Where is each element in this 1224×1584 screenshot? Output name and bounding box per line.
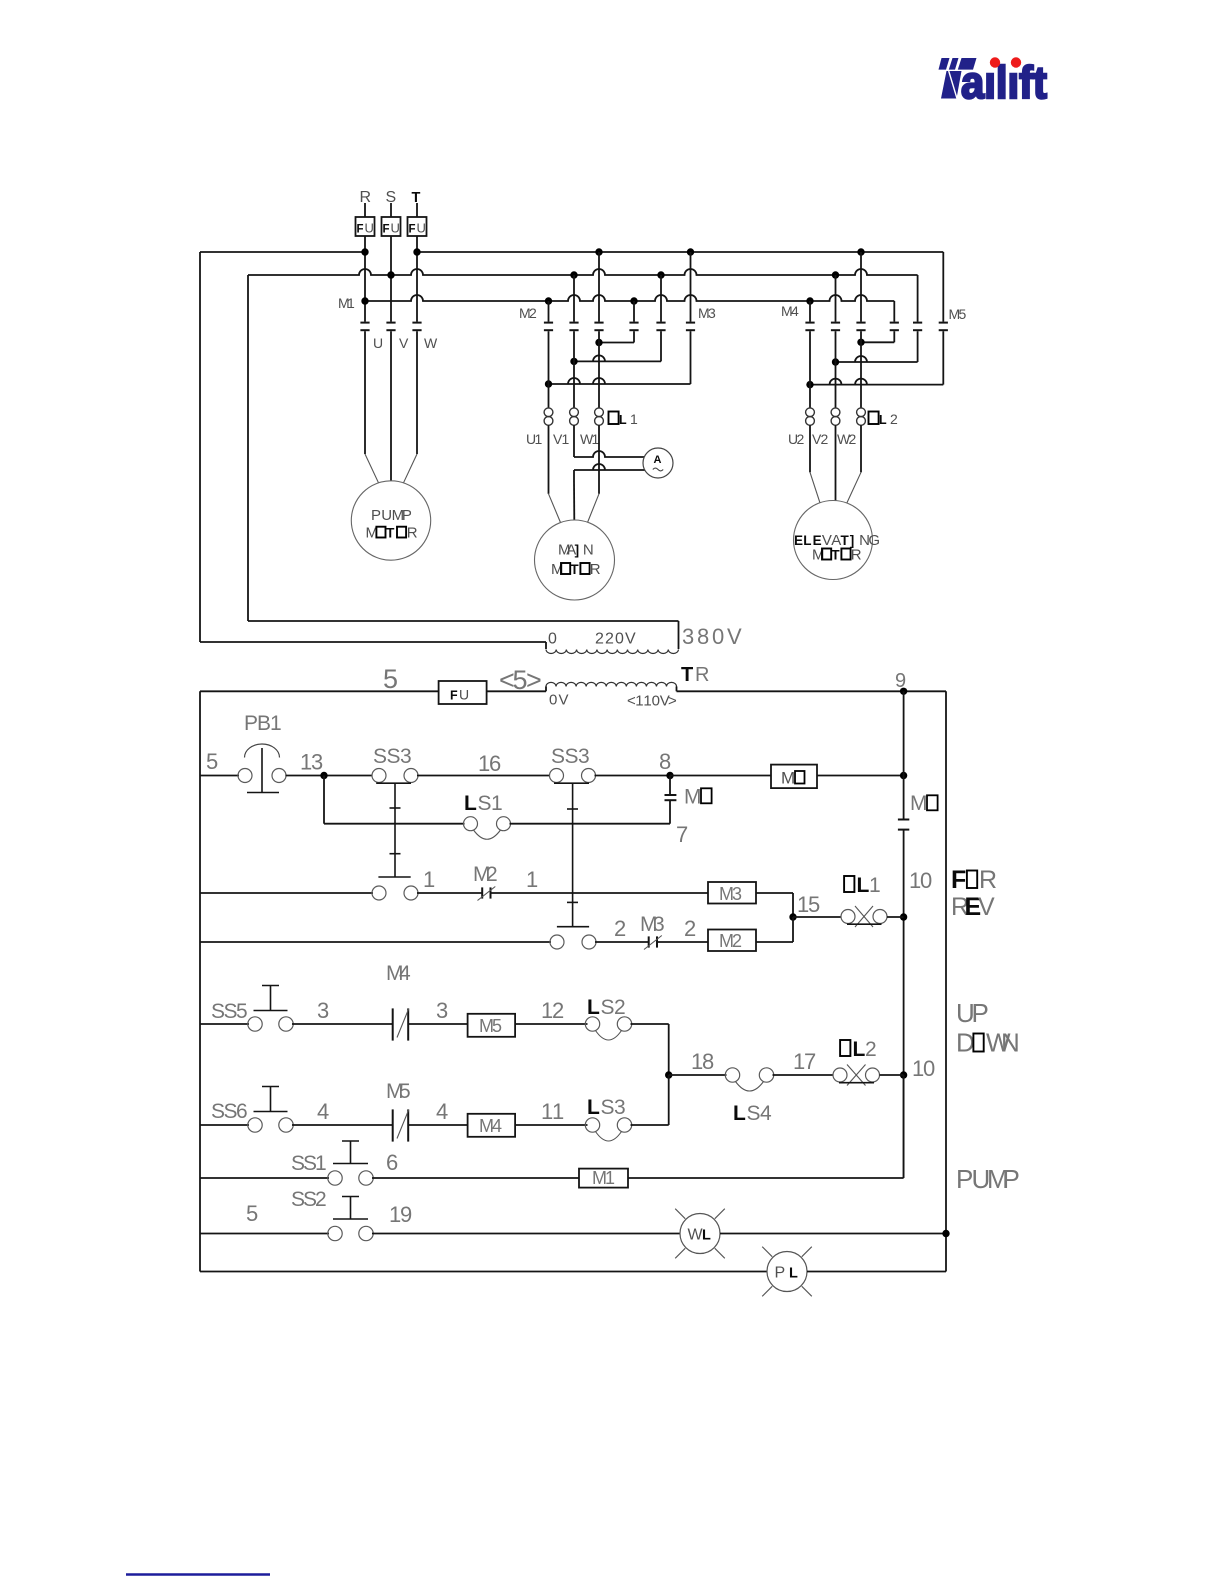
svg-text:1: 1 xyxy=(270,712,282,735)
wire U2 feed xyxy=(809,331,811,408)
wire row2 b xyxy=(417,892,482,894)
svg-text:1: 1 xyxy=(526,867,538,892)
wire PL row a xyxy=(200,1271,767,1273)
label UP xyxy=(956,998,989,1028)
svg-text:0: 0 xyxy=(712,624,724,649)
svg-text:L: L xyxy=(702,1228,711,1244)
svg-text:F: F xyxy=(450,689,458,703)
wire W1 lead xyxy=(588,425,600,522)
pushbutton SS6 xyxy=(211,1087,293,1133)
footer line xyxy=(126,1573,270,1575)
wire SS1 b xyxy=(372,1177,579,1179)
svg-text:6: 6 xyxy=(489,751,501,776)
svg-text:W: W xyxy=(424,335,438,351)
svg-text:T: T xyxy=(681,664,693,686)
limit switch LS1 xyxy=(464,792,511,839)
wire V2 lead xyxy=(835,425,837,500)
coil M2 xyxy=(708,930,756,952)
node 4b label xyxy=(436,1099,448,1124)
wire R phase xyxy=(364,236,366,322)
label REV xyxy=(951,893,995,921)
svg-text:P: P xyxy=(402,507,412,524)
pushbutton SS1 xyxy=(291,1141,373,1185)
svg-text:R: R xyxy=(979,866,997,894)
wire second border S xyxy=(248,275,679,649)
node 9 label xyxy=(895,670,906,692)
svg-text:2: 2 xyxy=(315,1188,327,1211)
node 2a label xyxy=(614,916,626,941)
svg-text:P: P xyxy=(972,998,989,1028)
wire SS2 a xyxy=(200,1233,329,1235)
svg-text:R: R xyxy=(851,547,862,564)
wire row1 b node13 xyxy=(286,750,373,780)
svg-text:1: 1 xyxy=(635,693,643,710)
contactor M1 contacts xyxy=(338,295,422,330)
wire control feed right xyxy=(487,690,546,692)
wire SS5 a xyxy=(200,1023,249,1025)
wire line1 left xyxy=(200,248,369,255)
svg-text:4: 4 xyxy=(399,962,411,985)
svg-text:S: S xyxy=(373,745,387,768)
svg-text:8: 8 xyxy=(697,624,709,649)
svg-text:1: 1 xyxy=(869,874,881,897)
svg-text:N: N xyxy=(583,542,594,559)
selector SS3 row3 contacts xyxy=(550,935,596,949)
svg-text:3: 3 xyxy=(682,624,694,649)
coil M1 xyxy=(579,1168,628,1188)
selector switch SS3 contact a xyxy=(372,745,418,877)
node S xyxy=(386,189,397,206)
node W2 label xyxy=(837,431,857,447)
svg-text:P: P xyxy=(244,712,258,735)
svg-text:3: 3 xyxy=(708,305,716,321)
svg-text:5: 5 xyxy=(206,749,218,774)
motor ELEVATING MOTOR xyxy=(794,501,881,580)
svg-text:2: 2 xyxy=(605,631,614,648)
label FOR xyxy=(951,866,997,894)
wire LS1 to M0aux xyxy=(510,800,671,824)
ammeter A xyxy=(643,448,673,478)
svg-text:1: 1 xyxy=(643,693,651,710)
contactor M5 contacts xyxy=(890,306,967,330)
wire ammeter return xyxy=(574,464,645,520)
node W1 label xyxy=(580,431,600,447)
svg-text:8: 8 xyxy=(702,1049,714,1074)
svg-text:1: 1 xyxy=(347,295,355,311)
svg-text:3: 3 xyxy=(653,913,665,936)
wire SS6 d xyxy=(515,1099,587,1125)
node W label xyxy=(424,335,438,351)
label DOWN xyxy=(956,1028,1020,1058)
svg-text:0: 0 xyxy=(920,868,932,893)
svg-text:R: R xyxy=(407,525,418,542)
node 7 label xyxy=(676,822,688,847)
svg-text:T: T xyxy=(386,526,395,541)
limit switch LS4 xyxy=(725,1068,773,1125)
wire LS2 out xyxy=(631,1024,673,1079)
wire row1 e xyxy=(670,775,771,777)
svg-text:U: U xyxy=(459,687,469,703)
wire U2 lead xyxy=(810,425,820,503)
wire M3 pole1 link xyxy=(595,331,634,346)
svg-text:L: L xyxy=(587,996,600,1019)
selector switch SS3 contact b xyxy=(550,745,596,927)
svg-text:U: U xyxy=(373,335,383,351)
wire control feed left xyxy=(200,690,439,692)
limit switch LS2 xyxy=(585,996,631,1040)
node 5 row1 label xyxy=(206,749,218,774)
Tailift logo xyxy=(939,57,1048,108)
svg-text:0: 0 xyxy=(615,631,624,648)
svg-text:L: L xyxy=(733,1102,746,1125)
svg-text:0: 0 xyxy=(652,693,660,710)
svg-text:B: B xyxy=(257,712,271,735)
coil M3 xyxy=(708,882,756,904)
node V label xyxy=(399,335,409,351)
svg-text:N: N xyxy=(1001,1028,1020,1058)
node 3b label xyxy=(436,998,448,1023)
svg-text:3: 3 xyxy=(578,745,590,768)
svg-text:6: 6 xyxy=(236,1100,248,1123)
svg-text:5: 5 xyxy=(383,664,398,694)
svg-text:2: 2 xyxy=(614,916,626,941)
svg-text:F: F xyxy=(409,224,416,236)
svg-text:5: 5 xyxy=(492,1016,502,1036)
FU fuse T xyxy=(408,203,427,236)
wire row3 c xyxy=(657,941,708,943)
svg-text:2: 2 xyxy=(595,631,604,648)
wire line3 R-phase bus xyxy=(361,295,894,322)
node 1b label xyxy=(526,867,538,892)
svg-text:F: F xyxy=(383,224,390,236)
svg-text:M: M xyxy=(910,792,928,815)
wire SS2 b xyxy=(372,1233,680,1235)
limit switch LS3 xyxy=(585,1096,631,1141)
node U label xyxy=(373,335,383,351)
svg-text:1: 1 xyxy=(315,1152,327,1175)
svg-text:P: P xyxy=(775,1265,786,1282)
svg-text:2: 2 xyxy=(486,863,498,886)
lamp PL xyxy=(762,1247,812,1297)
svg-text:1: 1 xyxy=(535,431,543,447)
svg-text:S: S xyxy=(478,792,492,815)
svg-text:1: 1 xyxy=(562,431,570,447)
svg-text:2: 2 xyxy=(732,931,742,951)
node 19 label xyxy=(389,1202,412,1227)
svg-text:T: T xyxy=(831,548,840,563)
wire W2 feed xyxy=(860,331,862,408)
svg-text:2: 2 xyxy=(849,431,857,447)
svg-text:L: L xyxy=(879,413,887,427)
wire left border R xyxy=(200,252,546,649)
svg-text:S: S xyxy=(551,745,565,768)
svg-text:9: 9 xyxy=(400,1202,412,1227)
svg-text:3: 3 xyxy=(317,998,329,1023)
svg-text:4: 4 xyxy=(492,1116,502,1136)
wire W lead xyxy=(404,331,418,483)
svg-text:5: 5 xyxy=(246,1201,258,1226)
svg-text:L: L xyxy=(853,1038,866,1061)
node V1 label xyxy=(553,431,570,447)
node T xyxy=(412,190,421,206)
svg-text:S: S xyxy=(747,1102,761,1125)
svg-text:1: 1 xyxy=(630,411,638,427)
svg-text:1: 1 xyxy=(605,1168,615,1188)
contact M4 NC xyxy=(386,962,411,1041)
wire line1 T-phase bus xyxy=(413,248,943,321)
wire row1 d node8 xyxy=(595,749,674,779)
wire U lead xyxy=(365,331,379,483)
svg-text:2: 2 xyxy=(529,305,537,321)
svg-text:4: 4 xyxy=(317,1099,329,1124)
wire T phase xyxy=(416,236,418,322)
svg-text:E: E xyxy=(794,533,803,548)
pushbutton PB1 xyxy=(238,712,286,793)
wire node13 drop xyxy=(324,776,465,824)
svg-text:F: F xyxy=(951,866,966,894)
wire OL1 out xyxy=(887,916,904,918)
svg-text:1: 1 xyxy=(491,792,503,815)
svg-text:V: V xyxy=(625,631,636,648)
svg-text:0: 0 xyxy=(548,631,557,648)
svg-text:5: 5 xyxy=(399,1080,411,1103)
svg-text:A: A xyxy=(654,454,662,466)
overload contact OL1 xyxy=(841,874,887,927)
svg-text:6: 6 xyxy=(386,1150,398,1175)
wire V2 feed xyxy=(835,331,837,408)
wire U1 lead xyxy=(549,425,561,522)
svg-text:2: 2 xyxy=(821,431,829,447)
svg-text:aılıft: aılıft xyxy=(961,57,1047,108)
node 4a label xyxy=(317,1099,329,1124)
wire row2 c xyxy=(491,892,709,894)
svg-text:4: 4 xyxy=(436,1099,448,1124)
svg-text:L: L xyxy=(803,533,811,548)
node U2 label xyxy=(788,431,805,447)
wire row3 d xyxy=(756,917,793,942)
svg-text:T: T xyxy=(841,533,850,548)
wire M1 to rail xyxy=(628,1075,904,1178)
wire SS5 c xyxy=(408,1023,467,1025)
motor PUMP MOTOR xyxy=(351,481,430,560)
svg-text:3: 3 xyxy=(400,745,412,768)
svg-text:L: L xyxy=(619,413,627,427)
contact M3 NC xyxy=(640,913,665,950)
wire secondary to rail xyxy=(677,688,947,695)
wire row2 d xyxy=(756,893,797,921)
wire outer right rail xyxy=(945,691,947,1271)
contactor M3 contacts xyxy=(629,252,716,330)
wire LS3 out xyxy=(631,1075,669,1125)
svg-text:S: S xyxy=(565,745,579,768)
label PUMP xyxy=(956,1164,1020,1194)
svg-text:2: 2 xyxy=(684,916,696,941)
wire M3 pole2 link xyxy=(570,331,661,365)
svg-text:P: P xyxy=(371,507,381,524)
wire V1 lead to ammeter xyxy=(574,425,645,457)
FU fuse R xyxy=(356,203,375,236)
svg-text:R: R xyxy=(695,664,709,686)
coil M5 xyxy=(468,1014,515,1037)
wire LS4 out xyxy=(773,1049,834,1075)
wire SS5 b xyxy=(292,1023,393,1025)
lamp WL xyxy=(675,1209,725,1259)
svg-text:1: 1 xyxy=(552,1099,564,1124)
svg-text:V: V xyxy=(559,692,569,709)
svg-text:3: 3 xyxy=(732,884,742,904)
wire SS6 b xyxy=(292,1124,393,1126)
svg-text:>: > xyxy=(526,665,542,695)
node 5 ss2 label xyxy=(246,1201,258,1226)
coil M0 xyxy=(771,765,817,789)
svg-text:2: 2 xyxy=(890,411,898,427)
svg-text:4: 4 xyxy=(791,303,799,319)
wire inner rail top xyxy=(903,691,905,819)
wire M3 pole3 link xyxy=(545,331,691,387)
svg-text:V: V xyxy=(978,893,995,921)
contactor M4 contacts xyxy=(781,252,866,330)
svg-text:2: 2 xyxy=(797,431,805,447)
svg-text:U: U xyxy=(391,221,400,236)
node V2 label xyxy=(812,431,829,447)
svg-text:R: R xyxy=(590,561,601,578)
node 3a label xyxy=(317,998,329,1023)
svg-text:F: F xyxy=(357,224,364,236)
svg-text:L: L xyxy=(464,792,477,815)
svg-text:3: 3 xyxy=(436,998,448,1023)
selector SS3 row2 contacts xyxy=(372,886,418,900)
svg-text:G: G xyxy=(868,532,880,549)
node 10b label xyxy=(912,1056,935,1081)
svg-text:0: 0 xyxy=(549,692,557,709)
svg-text:T: T xyxy=(570,562,579,577)
wire S phase xyxy=(390,236,392,322)
wire M5 pole1 link xyxy=(857,331,894,346)
svg-text:V: V xyxy=(727,624,742,649)
wire line2 S-phase bus xyxy=(248,269,918,322)
pushbutton SS2 xyxy=(291,1188,373,1241)
svg-text:7: 7 xyxy=(676,822,688,847)
node 5 label xyxy=(383,664,398,694)
node 6 label xyxy=(386,1150,398,1175)
svg-text:4: 4 xyxy=(760,1102,772,1125)
svg-text:M: M xyxy=(684,786,702,809)
wire inner rail mid xyxy=(900,830,907,1178)
wire OL2 out xyxy=(880,1074,904,1076)
contactor M2 contacts xyxy=(519,252,604,330)
contact M2 NC xyxy=(473,863,498,901)
wire V lead xyxy=(390,331,392,481)
svg-text:V: V xyxy=(399,335,409,351)
svg-text:5: 5 xyxy=(808,892,820,917)
wire PL row b xyxy=(807,1271,946,1273)
wire OL1 in xyxy=(793,892,841,917)
svg-text:8: 8 xyxy=(659,749,671,774)
wire W2 lead xyxy=(847,425,861,503)
wire SS2 c xyxy=(720,1230,950,1237)
svg-text:S: S xyxy=(601,996,615,1019)
wire SS1 a xyxy=(200,1177,329,1179)
svg-text:2: 2 xyxy=(552,998,564,1023)
wire SS6 c xyxy=(408,1124,467,1126)
node U1 label xyxy=(526,431,543,447)
node 2b label xyxy=(684,916,696,941)
motor MAIN MOTOR xyxy=(535,520,615,600)
overload OL1 xyxy=(544,408,638,427)
svg-text:L: L xyxy=(587,1096,600,1119)
coil M4 xyxy=(468,1114,515,1137)
svg-text:2: 2 xyxy=(865,1038,877,1061)
wire LS4 in xyxy=(669,1049,727,1075)
svg-text:3: 3 xyxy=(614,1096,626,1119)
svg-text:U: U xyxy=(417,221,426,236)
svg-text:D: D xyxy=(956,1028,975,1058)
svg-text:5: 5 xyxy=(959,306,967,322)
svg-text:S: S xyxy=(387,745,401,768)
svg-text:5: 5 xyxy=(236,1000,248,1023)
svg-text:2: 2 xyxy=(614,996,626,1019)
wire row3 b xyxy=(595,941,649,943)
wire SS5 d xyxy=(515,998,587,1024)
contact M0 rail xyxy=(898,792,938,830)
wire row1 c xyxy=(417,751,550,776)
node R xyxy=(360,189,372,206)
contact M5 NC xyxy=(386,1080,411,1142)
wire M5 pole3 link xyxy=(806,331,943,388)
svg-text:L: L xyxy=(789,1266,798,1282)
svg-text:U: U xyxy=(381,507,392,524)
wire SS6 a xyxy=(200,1124,249,1126)
contact M0 aux xyxy=(665,776,712,809)
fuse FU control xyxy=(439,681,487,704)
svg-text:M: M xyxy=(781,769,795,788)
svg-text:P: P xyxy=(1003,1164,1020,1194)
svg-text:1: 1 xyxy=(423,867,435,892)
wire V1 feed xyxy=(573,331,575,408)
svg-text:S: S xyxy=(601,1096,615,1119)
svg-text:T: T xyxy=(412,190,421,206)
wire row3 a xyxy=(200,941,551,943)
svg-text:3: 3 xyxy=(311,750,323,775)
wire row1 f xyxy=(817,772,907,779)
wire W1 feed xyxy=(598,331,600,408)
wire row2 a xyxy=(200,892,373,894)
svg-text:]: ] xyxy=(575,543,580,558)
svg-text:U: U xyxy=(365,221,374,236)
node (5) label xyxy=(499,665,542,695)
transformer TR xyxy=(546,624,742,710)
overload OL2 xyxy=(806,408,898,427)
wire row1 a xyxy=(200,775,239,777)
wire left rail xyxy=(199,691,201,1271)
node 10a label xyxy=(909,868,932,893)
svg-text:9: 9 xyxy=(895,670,906,692)
wire U1 feed xyxy=(548,331,550,408)
svg-text:0: 0 xyxy=(923,1056,935,1081)
wire M5 pole2 link xyxy=(832,331,918,365)
svg-text:L: L xyxy=(857,874,870,897)
svg-text:7: 7 xyxy=(804,1049,816,1074)
svg-text:>: > xyxy=(668,693,677,710)
overload contact OL2 xyxy=(833,1038,880,1086)
pushbutton SS5 xyxy=(211,986,293,1032)
FU fuse S xyxy=(382,203,401,236)
node 1a label xyxy=(423,867,435,892)
